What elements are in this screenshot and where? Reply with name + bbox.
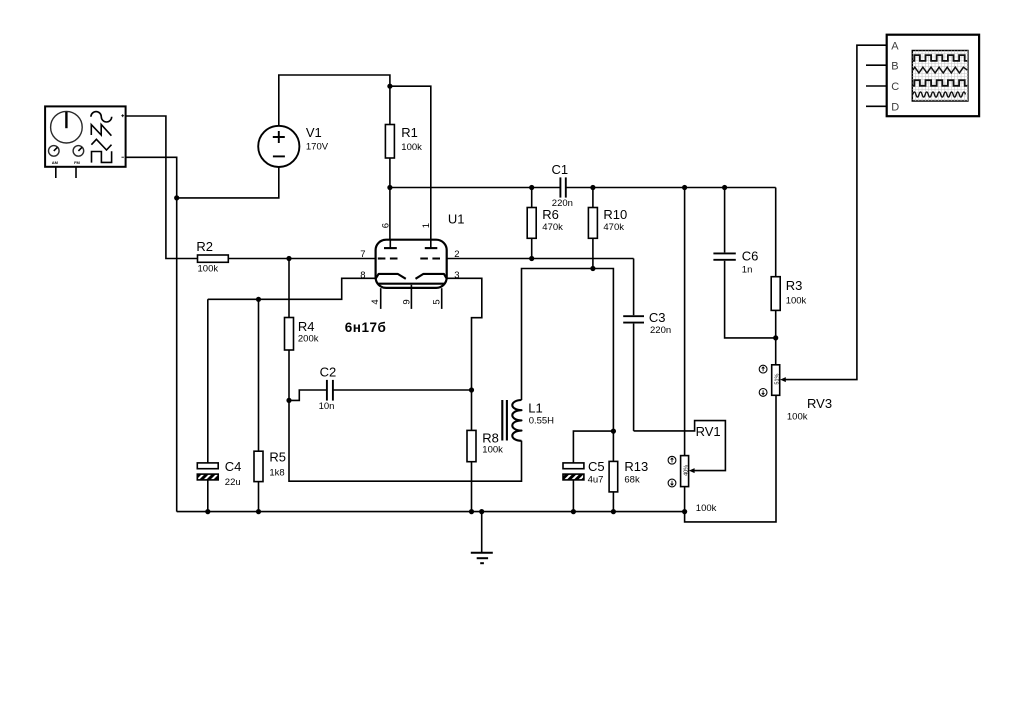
svg-text:51%: 51% bbox=[774, 373, 780, 384]
svg-text:RV1: RV1 bbox=[696, 424, 721, 439]
resistor R10 470k bbox=[588, 188, 627, 269]
svg-text:100k: 100k bbox=[198, 264, 219, 275]
capacitor C5 4u7 bbox=[563, 431, 613, 512]
node rail / RV1 feed bbox=[682, 185, 687, 190]
svg-text:R3: R3 bbox=[786, 278, 803, 293]
wire gen - output down to bottom rail bbox=[126, 157, 176, 511]
svg-text:4u7: 4u7 bbox=[588, 474, 604, 485]
function generator XFG1 bbox=[45, 106, 126, 178]
svg-text:C: C bbox=[891, 81, 899, 93]
svg-text:L1: L1 bbox=[528, 400, 542, 415]
node junction V1 minus / left vertical bbox=[174, 195, 179, 200]
resistor R4 200k bbox=[285, 259, 319, 401]
svg-text:C1: C1 bbox=[552, 162, 569, 177]
RV1 wiper arrowhead bbox=[689, 468, 695, 473]
wire V1 minus to left vertical bbox=[177, 167, 279, 198]
resistor R13 68k bbox=[609, 459, 648, 511]
svg-text:V1: V1 bbox=[306, 125, 322, 140]
wire C2 node down and across to L1 bottom bbox=[289, 400, 522, 481]
svg-text:RV3: RV3 bbox=[807, 396, 832, 411]
potentiometer RV3 100k bbox=[759, 365, 832, 423]
ground rail bbox=[177, 511, 685, 513]
wire gen + output to R2 row bbox=[126, 116, 197, 259]
svg-text:R13: R13 bbox=[624, 459, 648, 474]
svg-text:100k: 100k bbox=[787, 412, 808, 423]
capacitor C3 220n on grid-2 branch bbox=[447, 259, 671, 431]
capacitor C2 10n bbox=[289, 365, 472, 412]
wire tube pin 8 row to C4/R5 bbox=[208, 278, 376, 299]
svg-text:C6: C6 bbox=[742, 249, 759, 264]
svg-text:470k: 470k bbox=[542, 222, 563, 233]
svg-text:40%: 40% bbox=[683, 465, 689, 476]
node R6 bottom on grid row bbox=[529, 256, 534, 261]
wire R10 bottom node to R13 top bbox=[593, 269, 614, 462]
svg-text:6н17б: 6н17б bbox=[345, 320, 387, 335]
wire branch to tube pin 1 plate bbox=[390, 86, 431, 248]
svg-text:AM: AM bbox=[52, 160, 59, 165]
capacitor C4 22u bbox=[197, 299, 241, 511]
node R13 bottom bbox=[611, 509, 616, 514]
node pin3 / C2 / R8 bbox=[469, 387, 474, 392]
svg-text:5: 5 bbox=[432, 299, 443, 304]
node R10 top bbox=[590, 185, 595, 190]
svg-text:R10: R10 bbox=[603, 207, 627, 222]
node R5 bottom bbox=[256, 509, 261, 514]
svg-text:R4: R4 bbox=[298, 319, 315, 334]
wire tube pin 3 to R8 top / C2 right bbox=[447, 278, 482, 390]
svg-text:10n: 10n bbox=[319, 401, 335, 412]
wire C3 bottom to RV1 wiper bbox=[634, 421, 726, 471]
node pin8 row / R5 bbox=[256, 297, 261, 302]
node R1 bottom / anode rail bbox=[387, 185, 392, 190]
node R3 bottom / C6 / RV3 top bbox=[773, 335, 778, 340]
capacitor C1 220n bbox=[552, 162, 573, 209]
svg-text:68k: 68k bbox=[624, 474, 640, 485]
svg-text:1n: 1n bbox=[742, 264, 753, 275]
svg-text:22u: 22u bbox=[225, 477, 241, 488]
capacitor C6 1n bbox=[713, 188, 775, 338]
node rail / C6 bbox=[722, 185, 727, 190]
resistor R5 1k8 bbox=[254, 299, 286, 511]
svg-text:D: D bbox=[891, 101, 899, 113]
node C4 bottom bbox=[205, 509, 210, 514]
node RV1 bottom / ground rail bbox=[682, 509, 687, 514]
svg-text:R1: R1 bbox=[401, 125, 418, 140]
node R1 top / pin 1 branch bbox=[387, 84, 392, 89]
svg-text:100k: 100k bbox=[401, 142, 422, 153]
svg-text:R2: R2 bbox=[196, 239, 213, 254]
svg-text:B: B bbox=[891, 60, 898, 72]
svg-text:0.55H: 0.55H bbox=[529, 415, 554, 426]
svg-text:200k: 200k bbox=[298, 334, 319, 345]
node R4 bottom / C2 / L1 link bbox=[286, 398, 291, 403]
svg-text:R5: R5 bbox=[269, 449, 286, 464]
svg-text:470k: 470k bbox=[603, 222, 624, 233]
svg-text:C2: C2 bbox=[320, 365, 337, 380]
svg-text:3: 3 bbox=[454, 270, 459, 281]
svg-text:100k: 100k bbox=[696, 503, 717, 514]
node ground stub bbox=[479, 509, 484, 514]
node R2 row to R4 bbox=[286, 256, 291, 261]
svg-text:C4: C4 bbox=[225, 459, 242, 474]
svg-text:1k8: 1k8 bbox=[269, 467, 284, 478]
voltage source V1 170V bbox=[258, 125, 329, 167]
svg-text:C5: C5 bbox=[588, 459, 605, 474]
svg-text:C3: C3 bbox=[649, 310, 666, 325]
svg-text:FM: FM bbox=[74, 160, 80, 165]
node C5 / R13 feed bbox=[611, 429, 616, 434]
wire top rail down to RV1 top bbox=[684, 188, 686, 456]
svg-text:R8: R8 bbox=[482, 430, 499, 445]
wire anode top rail (through C1 gap) bbox=[390, 187, 561, 189]
wire RV3 wiper to oscilloscope input A bbox=[783, 45, 887, 379]
resistor R2 100k bbox=[196, 239, 375, 275]
resistor R1 100k bbox=[385, 86, 422, 248]
RV3 wiper arrowhead bbox=[780, 377, 786, 382]
node R6 top bbox=[529, 185, 534, 190]
svg-text:9: 9 bbox=[401, 299, 412, 304]
node R10 bottom bbox=[590, 266, 595, 271]
resistor R3 100k bbox=[771, 188, 806, 365]
svg-text:100k: 100k bbox=[786, 296, 807, 307]
svg-text:6: 6 bbox=[381, 223, 392, 228]
oscilloscope XSC1 bbox=[866, 35, 979, 117]
node C5 bottom bbox=[571, 509, 576, 514]
ground symbol bbox=[471, 512, 493, 564]
svg-text:220n: 220n bbox=[650, 325, 671, 336]
wire R10 bottom node to L1 top bbox=[522, 269, 593, 401]
svg-text:170V: 170V bbox=[306, 141, 329, 152]
resistor R6 470k bbox=[527, 188, 563, 259]
node R8 bottom bbox=[469, 509, 474, 514]
svg-text:U1: U1 bbox=[448, 212, 465, 227]
wire V1 plus to top rail and down to R1 bbox=[279, 75, 390, 126]
svg-text:R6: R6 bbox=[542, 207, 559, 222]
resistor R8 100k bbox=[467, 390, 503, 512]
potentiometer RV1 100k bbox=[668, 424, 721, 514]
svg-text:A: A bbox=[891, 40, 899, 52]
svg-text:100k: 100k bbox=[482, 445, 503, 456]
wire RV1 bottom loop to RV3 bottom bbox=[685, 395, 776, 522]
inductor L1 0.55H bbox=[502, 400, 554, 441]
svg-text:4: 4 bbox=[370, 299, 381, 304]
svg-text:8: 8 bbox=[360, 270, 365, 281]
svg-text:1: 1 bbox=[421, 223, 432, 228]
triode U1 6n17b bbox=[345, 212, 465, 336]
